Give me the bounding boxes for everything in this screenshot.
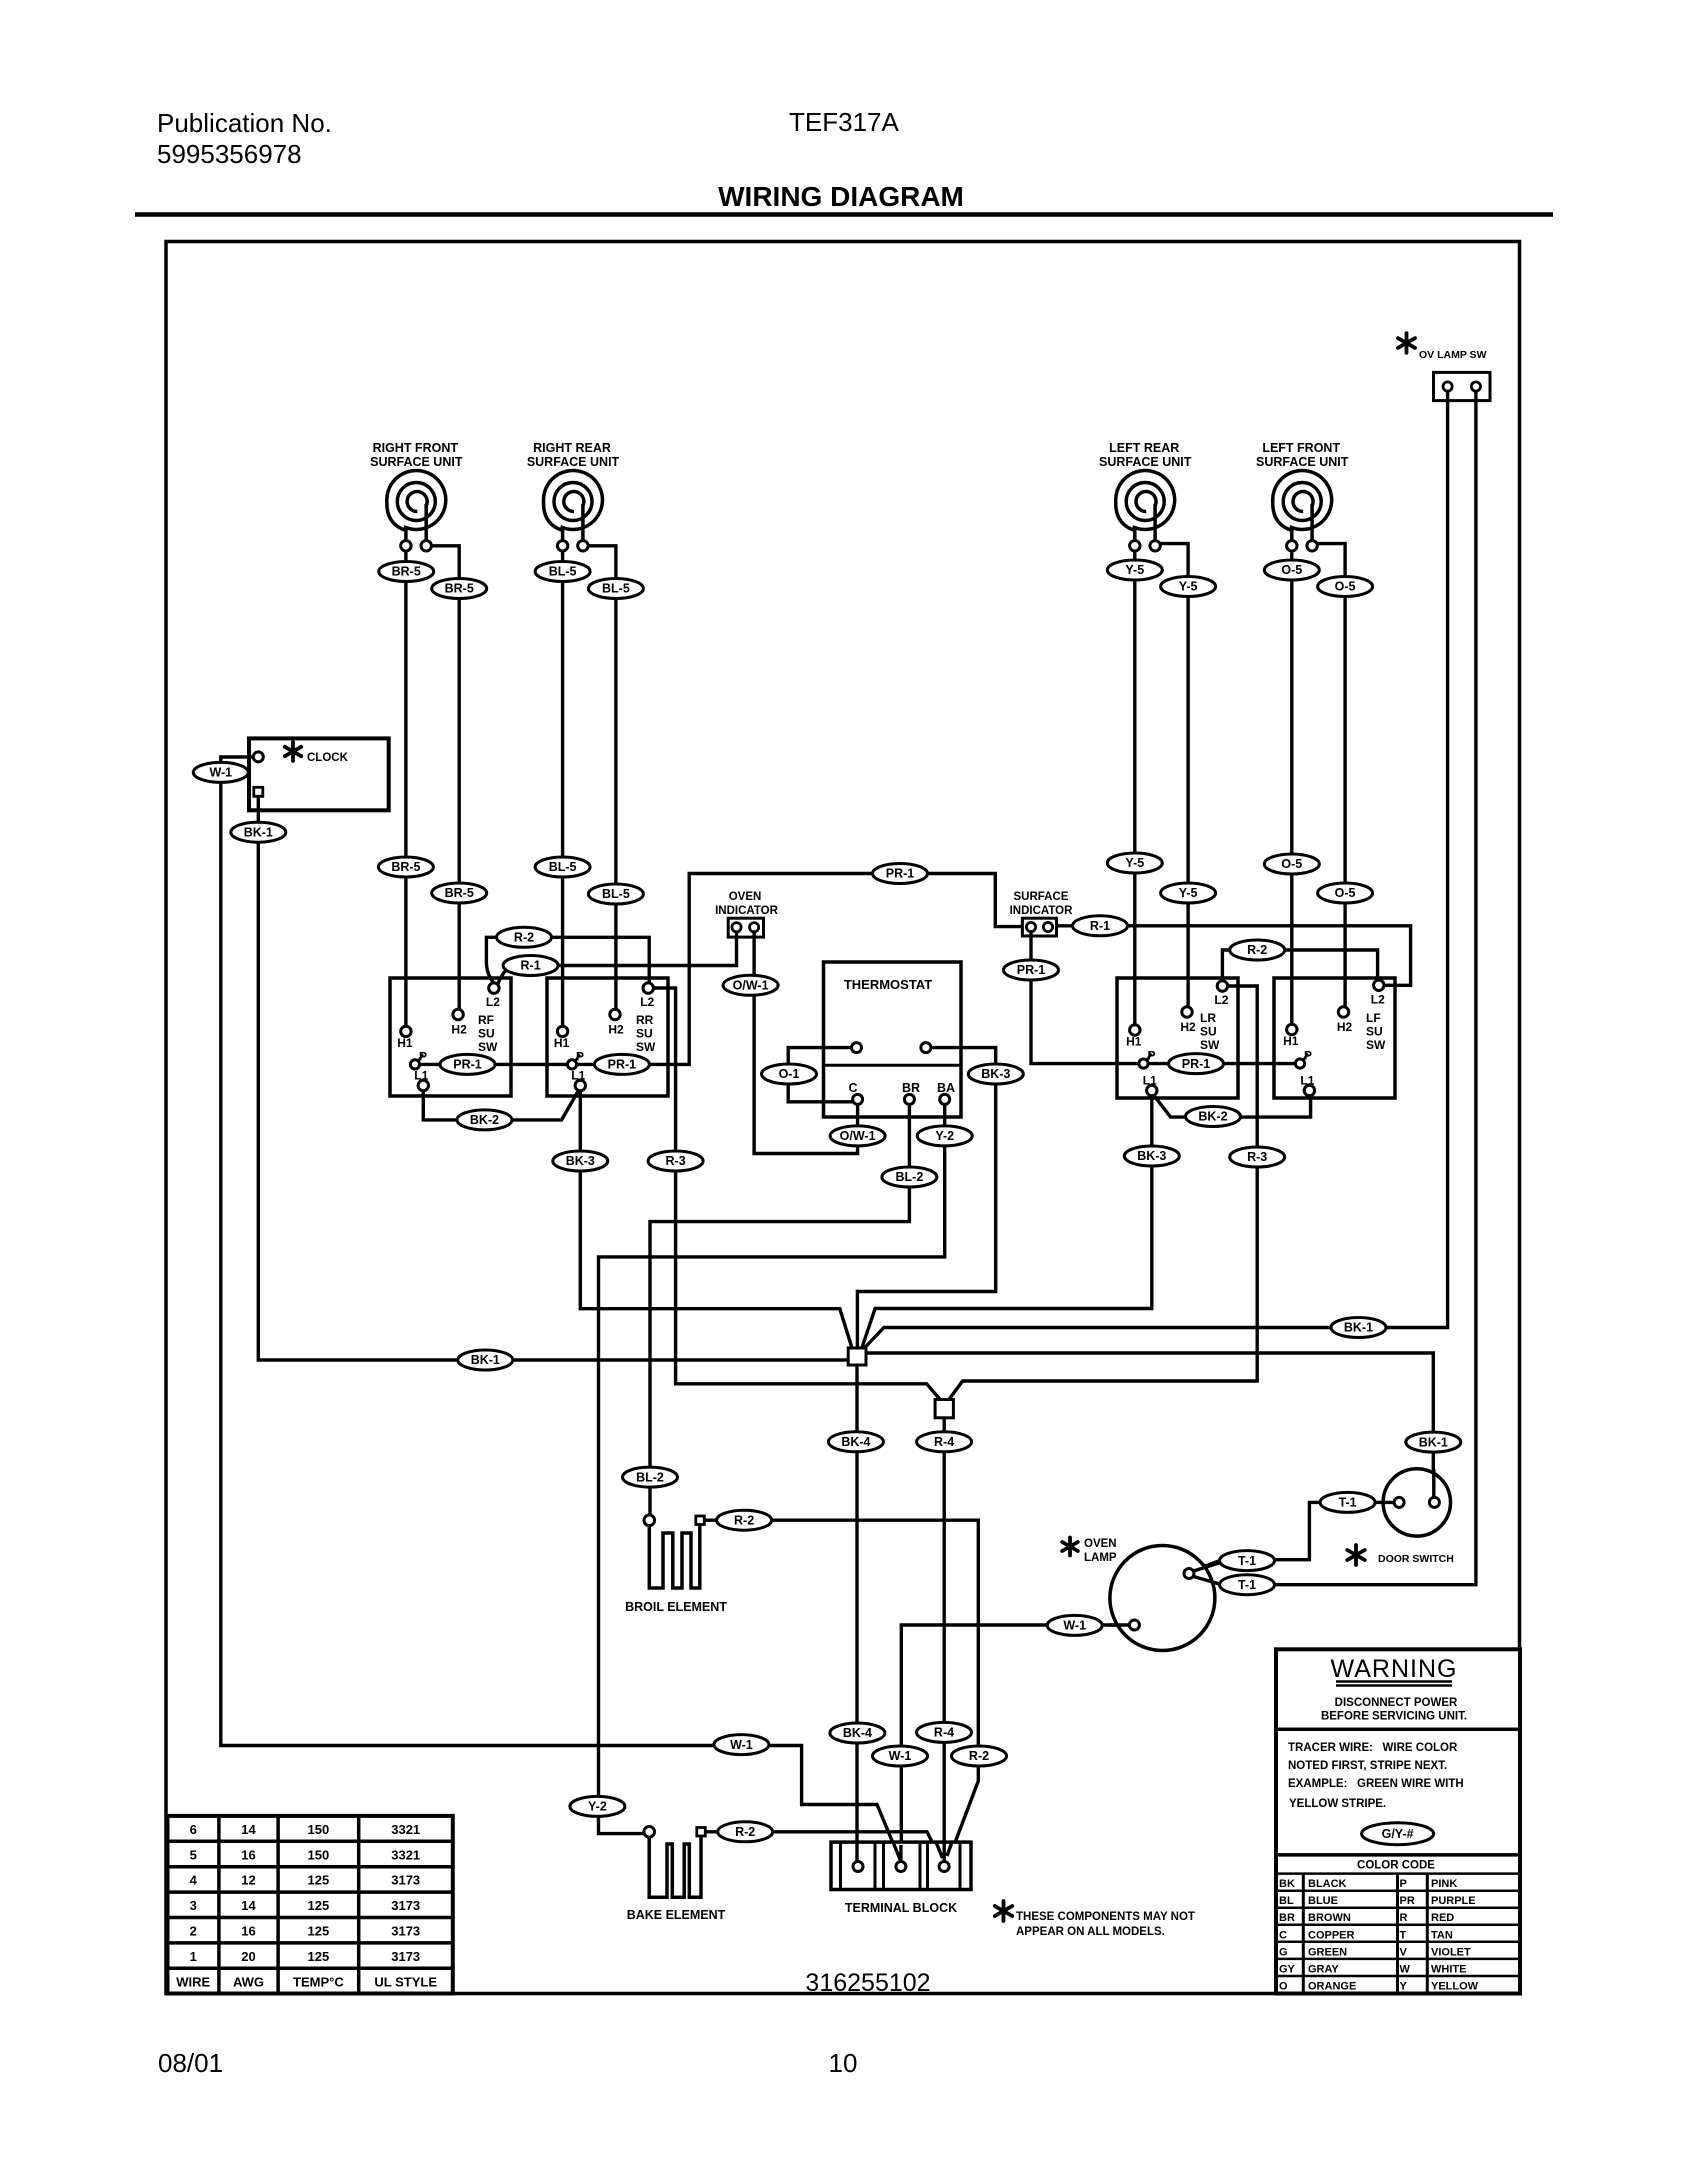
wire label W-1 [1047,1615,1102,1635]
svg-text:Y: Y [1400,1980,1408,1992]
svg-text:Y-5: Y-5 [1179,886,1198,900]
wire label BK-1 [1406,1432,1461,1452]
svg-text:GY: GY [1279,1963,1296,1975]
svg-text:RIGHT FRONT: RIGHT FRONT [373,441,459,455]
wire label R-2 [1230,940,1285,960]
svg-text:OV LAMP SW: OV LAMP SW [1419,349,1487,361]
wire label BK-2 [1186,1107,1241,1127]
RR terminal H2 [610,1009,620,1019]
svg-text:P: P [1304,1049,1312,1063]
svg-text:O-5: O-5 [1281,563,1302,577]
RR terminal P [567,1054,580,1069]
svg-text:10: 10 [829,2048,858,2078]
RF name label [478,1013,498,1054]
clock asterisk [285,742,301,761]
svg-text:GREEN: GREEN [1308,1946,1347,1958]
door switch asterisk [1347,1545,1364,1565]
svg-text:DISCONNECT POWER: DISCONNECT POWER [1335,1697,1458,1709]
svg-text:08/01: 08/01 [158,2048,223,2078]
svg-text:P: P [1147,1049,1155,1063]
svg-text:5995356978: 5995356978 [157,139,302,169]
svg-text:O-5: O-5 [1335,580,1356,594]
svg-text:L2: L2 [1214,993,1228,1007]
wire PR-1 from surface indicator to LR/LF pilots [1031,936,1295,1064]
diagram border frame [166,242,1520,1994]
wire label O-5 [1318,577,1373,597]
LF terminal P [1295,1054,1308,1069]
svg-text:PR-1: PR-1 [608,1058,637,1072]
svg-text:R-4: R-4 [934,1726,954,1740]
svg-text:W: W [1400,1963,1411,1975]
title underline [135,212,1553,217]
RR name label [636,1013,656,1054]
svg-text:3321: 3321 [391,1847,420,1862]
svg-text:G: G [1279,1946,1288,1958]
wire Y-2 from thermostat BA to bake element [599,1105,945,1834]
switch RR SU SW box [547,978,668,1096]
svg-text:150: 150 [308,1822,330,1837]
LF terminal H1 [1287,1024,1297,1034]
wire O-5 surface LF H2 [1317,544,1345,1007]
LR terminal H2 [1182,1007,1192,1017]
svg-text:DOOR SWITCH: DOOR SWITCH [1378,1553,1454,1565]
wire R-3 from LR L2 to junction B [948,986,1257,1401]
wire R tails into terminal block [936,1842,952,1862]
LR terminal P [1139,1054,1152,1069]
svg-text:PURPLE: PURPLE [1431,1895,1476,1907]
wire label BK-3 [553,1151,608,1171]
wire label W-1 [873,1746,928,1766]
wire label O/W-1 [830,1126,885,1146]
svg-text:PINK: PINK [1431,1878,1457,1890]
svg-text:W-1: W-1 [730,1738,753,1752]
thermostat terminal BA [940,1094,950,1104]
svg-text:RF: RF [478,1013,494,1027]
thermostat box [824,962,962,1117]
svg-text:16: 16 [241,1847,255,1862]
svg-text:BL-2: BL-2 [896,1170,924,1184]
svg-text:H1: H1 [1283,1034,1299,1048]
svg-text:R-1: R-1 [1090,919,1110,933]
svg-text:NOTED FIRST, STRIPE NEXT.: NOTED FIRST, STRIPE NEXT. [1288,1760,1447,1772]
OV LAMP SW asterisk [1398,333,1415,353]
thermostat upper-right terminal [921,1043,931,1053]
svg-text:WARNING: WARNING [1331,1655,1458,1683]
svg-text:R-2: R-2 [734,1513,754,1527]
LR terminal H1 [1130,1025,1140,1035]
svg-text:V: V [1400,1946,1408,1958]
svg-text:125: 125 [308,1924,330,1939]
RR terminal L1 [575,1080,585,1090]
svg-text:R: R [1400,1912,1408,1924]
svg-text:BK-1: BK-1 [1419,1435,1448,1449]
wire label BK-1 [458,1350,513,1370]
svg-text:EXAMPLE: GREEN WIRE WITH: EXAMPLE: GREEN WIRE WITH [1288,1778,1464,1790]
surface unit LEFT REAR [1099,441,1192,551]
svg-text:BROIL ELEMENT: BROIL ELEMENT [625,1600,727,1614]
svg-text:BK-4: BK-4 [841,1435,870,1449]
terminal block R terminal [939,1862,949,1872]
wire stubs at oven indicator terminals [737,931,755,939]
svg-text:THERMOSTAT: THERMOSTAT [844,977,932,992]
wire BK-1 from OV LAMP SW to junction A [863,392,1448,1351]
svg-text:BK-1: BK-1 [471,1353,500,1367]
svg-text:O/W-1: O/W-1 [733,979,769,993]
wire label BL-5 [588,579,643,599]
svg-text:BK-3: BK-3 [566,1154,595,1168]
svg-text:BL-5: BL-5 [602,582,630,596]
door switch [1347,1469,1454,1565]
wire Y-5 surface LR H2 [1160,544,1188,1007]
svg-text:R-2: R-2 [1247,943,1267,957]
svg-text:WHITE: WHITE [1431,1963,1466,1975]
bake element [627,1827,726,1923]
wire label T-1 [1220,1551,1275,1571]
svg-text:LEFT REAR: LEFT REAR [1109,441,1179,455]
svg-text:L1: L1 [1300,1074,1314,1088]
svg-text:L1: L1 [571,1069,585,1083]
clock [249,738,389,810]
surface indicator [1010,891,1074,936]
svg-text:W-1: W-1 [1063,1619,1086,1633]
svg-text:R-2: R-2 [514,931,534,945]
svg-text:TERMINAL BLOCK: TERMINAL BLOCK [845,1901,957,1915]
wire BK-2 from LR L1 to LF L1 [1154,1095,1311,1117]
svg-text:INDICATOR: INDICATOR [1010,905,1074,917]
svg-text:TEF317A: TEF317A [789,107,899,137]
LF name label [1366,1011,1386,1052]
wire label T-1 [1220,1575,1275,1595]
svg-text:125: 125 [308,1949,330,1964]
svg-text:C: C [1279,1929,1287,1941]
svg-text:Y-5: Y-5 [1179,580,1198,594]
oven lamp [1062,1538,1222,1651]
wire label R-4 [917,1722,972,1742]
junction node A (black wires) [848,1348,866,1365]
svg-text:LAMP: LAMP [1084,1552,1117,1564]
svg-text:BR: BR [1279,1912,1295,1924]
svg-text:L2: L2 [1371,992,1385,1006]
wire BK-2 from RF L1 to RR L1 [423,1091,578,1120]
svg-text:SURFACE: SURFACE [1014,891,1069,903]
wire T-1 from OV LAMP SW to oven lamp [1192,392,1476,1585]
svg-text:ORANGE: ORANGE [1308,1980,1356,1992]
svg-text:12: 12 [241,1873,255,1888]
svg-text:CLOCK: CLOCK [307,752,349,764]
wire label W-1 [193,762,248,782]
svg-text:LF: LF [1366,1011,1381,1025]
wire T-1 from door switch to oven lamp [1192,1502,1396,1571]
svg-text:SW: SW [478,1040,498,1054]
wire label BL-2 [623,1467,678,1487]
svg-text:R-4: R-4 [934,1435,954,1449]
svg-text:BR-5: BR-5 [445,582,474,596]
svg-text:COPPER: COPPER [1308,1929,1355,1941]
svg-text:GRAY: GRAY [1308,1963,1339,1975]
svg-text:APPEAR ON ALL MODELS.: APPEAR ON ALL MODELS. [1016,1926,1165,1938]
terminal block BK terminal [853,1862,863,1872]
wire R-2 from RF L2 to RR L2 [486,937,649,983]
wire label Y-5 [1161,577,1216,597]
svg-text:THESE COMPONENTS MAY NOT: THESE COMPONENTS MAY NOT [1016,1911,1195,1923]
svg-text:150: 150 [308,1847,330,1862]
wire BL-5 surface RR H2 [588,546,616,1010]
svg-text:G/Y-#: G/Y-# [1382,1827,1414,1841]
wire label BK-2 [457,1110,512,1130]
wire BR-5 surface RF H2 [431,546,459,1010]
wire Y-5 surface LR H1 [1133,549,1136,1025]
svg-text:TAN: TAN [1431,1929,1453,1941]
wire label R-2 [952,1746,1007,1766]
svg-text:SU: SU [1200,1025,1217,1039]
svg-text:SU: SU [636,1027,653,1041]
svg-text:5: 5 [190,1847,197,1862]
wire BK-3 from LR L1 to junction A [862,1096,1152,1350]
svg-text:INDICATOR: INDICATOR [715,905,779,917]
wire tails into door switch terminals [1382,1469,1434,1502]
wire O-5 surface LF H1 [1290,549,1293,1025]
wire O/W-1 from oven indicator to thermostat C [754,937,858,1154]
wire label PR-1 [594,1054,649,1074]
svg-text:BK: BK [1279,1878,1295,1890]
wire gauge table [168,1816,453,1994]
svg-text:20: 20 [241,1949,255,1964]
svg-text:SW: SW [1366,1038,1386,1052]
wire label O-5 [1264,560,1319,580]
svg-text:VIOLET: VIOLET [1431,1946,1471,1958]
svg-text:W-1: W-1 [209,766,232,780]
svg-text:BK-1: BK-1 [244,825,273,839]
svg-text:C: C [848,1081,857,1095]
wire R-2 from bake element to terminal block [705,1832,942,1863]
wire label BK-1 [231,822,286,842]
svg-text:125: 125 [308,1873,330,1888]
wire label R-3 [1230,1147,1285,1167]
svg-text:PR-1: PR-1 [453,1058,482,1072]
surface unit LEFT FRONT [1256,441,1349,551]
wire label Y-5 [1161,883,1216,903]
wire label BL-5 [588,884,643,904]
LF terminal L1 [1304,1085,1314,1095]
wire tails into oven lamp terminal [1109,1562,1222,1625]
wire label G/Y-# example [1362,1823,1434,1845]
wire label R-1 [1073,916,1128,936]
wire label Y-5 [1107,560,1162,580]
svg-text:L1: L1 [414,1069,428,1083]
svg-text:BL-2: BL-2 [636,1470,664,1484]
svg-text:OVEN: OVEN [1084,1538,1117,1550]
svg-text:RED: RED [1431,1912,1454,1924]
wire stubs at thermostat edges [824,1048,963,1119]
svg-text:BLUE: BLUE [1308,1895,1338,1907]
wire PR-1 from RF/RR pilots to surface indicator [420,874,1022,1065]
wire stub at surface indicator terminal [1029,931,1032,938]
note asterisk [995,1901,1012,1921]
wire label R-2 [717,1510,772,1530]
oven indicator [715,891,779,937]
wire label PR-1 [440,1054,495,1074]
svg-text:SW: SW [636,1040,656,1054]
svg-text:TEMP°C: TEMP°C [293,1974,344,1989]
wire label BK-4 [830,1723,885,1743]
LF terminal H2 [1338,1007,1348,1017]
wire label BK-3 [1124,1146,1179,1166]
svg-text:L2: L2 [486,995,500,1009]
svg-text:R-2: R-2 [969,1749,989,1763]
svg-text:T-1: T-1 [1238,1578,1256,1592]
wire label PR-1 [1004,960,1059,980]
RF terminal L1 [418,1080,428,1090]
svg-text:3173: 3173 [391,1949,420,1964]
terminal block W terminal [896,1862,906,1872]
svg-text:O/W-1: O/W-1 [840,1129,876,1143]
svg-text:PR-1: PR-1 [1182,1057,1211,1071]
LR terminal L2 [1217,981,1227,991]
note: components may not appear on all models [995,1901,1195,1938]
wire label BR-5 [432,883,487,903]
svg-text:H2: H2 [1337,1020,1353,1034]
svg-text:6: 6 [190,1822,197,1837]
wire W-1 tails into terminal block [893,1842,901,1862]
wire BK-4 tail into terminal block [855,1842,858,1862]
RR terminal L2 [643,983,653,993]
wire label O-5 [1264,854,1319,874]
svg-text:P: P [1400,1878,1407,1890]
svg-text:BK-4: BK-4 [843,1726,872,1740]
svg-text:O-5: O-5 [1281,857,1302,871]
terminal block [831,1842,971,1889]
wire R-2 from broil element to terminal block [705,1520,979,1862]
wire label BL-5 [535,857,590,877]
svg-text:LEFT FRONT: LEFT FRONT [1262,441,1340,455]
wire label O/W-1 [723,975,778,995]
svg-text:YELLOW STRIPE.: YELLOW STRIPE. [1289,1798,1386,1810]
svg-text:Publication No.: Publication No. [157,108,332,138]
wire stubs at OV LAMP SW terminals [1448,391,1476,403]
svg-text:H2: H2 [1180,1020,1196,1034]
wire BR-5 surface RF H1 [404,551,407,1026]
svg-text:3321: 3321 [391,1822,420,1837]
svg-text:O-1: O-1 [779,1067,800,1081]
wire R-3 from RR L2 to junction B [653,988,941,1401]
wire label T-1 [1320,1492,1375,1512]
wire label BK-4 [828,1432,883,1452]
svg-text:BEFORE SERVICING UNIT.: BEFORE SERVICING UNIT. [1321,1711,1467,1723]
svg-text:P: P [419,1049,427,1063]
svg-text:H2: H2 [451,1023,467,1037]
svg-text:SU: SU [478,1027,495,1041]
svg-text:YELLOW: YELLOW [1431,1980,1479,1992]
svg-text:Y-2: Y-2 [935,1129,954,1143]
wire BK-1 from clock to junction A [258,796,848,1360]
wire label O-1 [762,1064,817,1084]
svg-text:T: T [1400,1929,1407,1941]
OV LAMP SW [1398,333,1490,400]
svg-text:RR: RR [636,1013,654,1027]
LF terminal L2 [1374,980,1384,990]
svg-text:1: 1 [190,1949,197,1964]
svg-text:RIGHT REAR: RIGHT REAR [533,441,611,455]
svg-text:R-2: R-2 [735,1825,755,1839]
svg-text:P: P [576,1049,584,1063]
svg-text:SURFACE UNIT: SURFACE UNIT [1256,455,1349,469]
wire label BR-5 [432,579,487,599]
svg-text:PR-1: PR-1 [886,867,915,881]
svg-text:O: O [1279,1980,1288,1992]
svg-text:BL-5: BL-5 [602,887,630,901]
wire label BR-5 [379,562,434,582]
svg-text:BR-5: BR-5 [391,860,420,874]
svg-text:BK-2: BK-2 [1198,1110,1227,1124]
svg-text:PR: PR [1400,1895,1415,1907]
svg-text:BAKE ELEMENT: BAKE ELEMENT [627,1908,726,1922]
wire label R-3 [648,1151,703,1171]
svg-text:WIRE: WIRE [176,1974,210,1989]
svg-text:125: 125 [308,1898,330,1913]
svg-text:AWG: AWG [233,1974,264,1989]
wire label R-2 [497,927,552,947]
wire label R-4 [917,1432,972,1452]
wire BK-3 from RR L1 to junction A [580,1091,852,1349]
wire label BL-5 [535,562,590,582]
svg-text:BR-5: BR-5 [392,565,421,579]
wire R-4 from junction B to terminal block [943,1417,946,1862]
wire label W-1 [714,1735,769,1755]
broil element [625,1515,727,1614]
oven lamp asterisk [1062,1538,1078,1556]
wire BL-5 surface RR H1 [561,551,564,1026]
surface unit RIGHT REAR [527,441,620,551]
wire R-1 from RF L2 to oven indicator [498,937,737,985]
svg-text:16: 16 [241,1924,255,1939]
thermostat upper-left terminal [852,1043,862,1053]
svg-text:BK-3: BK-3 [981,1067,1010,1081]
svg-text:4: 4 [190,1873,198,1888]
svg-text:BR: BR [902,1081,920,1095]
svg-text:3173: 3173 [391,1898,420,1913]
svg-text:SU: SU [1366,1025,1383,1039]
svg-text:O-5: O-5 [1335,886,1356,900]
svg-text:R-3: R-3 [666,1154,686,1168]
wire label BR-5 [378,857,433,877]
svg-text:BL-5: BL-5 [549,860,577,874]
RF terminal H1 [401,1026,411,1036]
svg-text:3173: 3173 [391,1873,420,1888]
RF terminal P [410,1054,423,1069]
wire BK-3 from thermostat to junction A [857,1048,995,1348]
wire label O-5 [1318,883,1373,903]
svg-text:BA: BA [937,1081,955,1095]
svg-text:BROWN: BROWN [1308,1912,1351,1924]
svg-text:L2: L2 [640,995,654,1009]
svg-text:BK-1: BK-1 [1344,1321,1373,1335]
svg-text:L1: L1 [1143,1074,1157,1088]
wire label R-1 [503,956,558,976]
svg-text:H1: H1 [1126,1035,1142,1049]
wire label R-2 [718,1822,773,1842]
svg-text:SURFACE UNIT: SURFACE UNIT [1099,455,1192,469]
wire label BL-2 [882,1167,937,1187]
wire O-1 thermostat internal loop [788,1048,852,1102]
LR name label [1200,1011,1220,1052]
svg-text:H1: H1 [397,1036,413,1050]
wire BK-4 from junction A to terminal block [855,1364,858,1862]
svg-text:2: 2 [190,1924,197,1939]
wire label PR-1 [873,864,928,884]
svg-text:T-1: T-1 [1238,1554,1256,1568]
svg-text:3: 3 [190,1898,197,1913]
svg-text:14: 14 [241,1822,256,1837]
